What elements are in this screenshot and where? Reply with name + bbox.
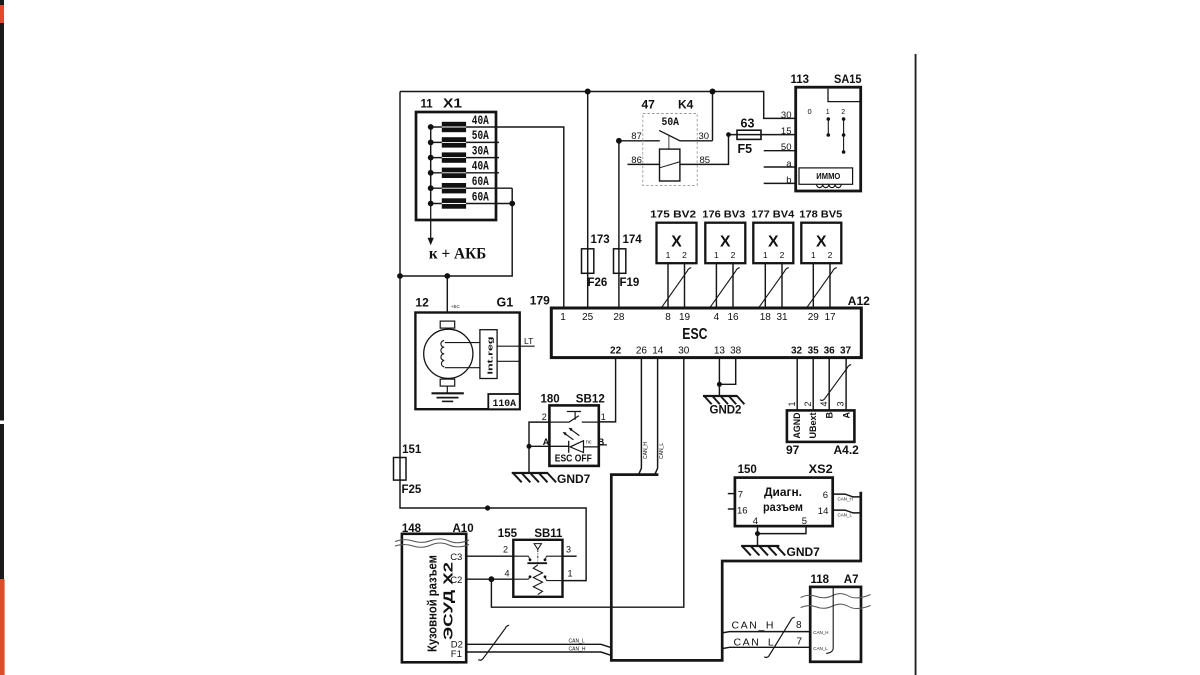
svg-text:14: 14 [652, 345, 664, 356]
svg-text:3: 3 [836, 401, 846, 406]
svg-text:CAN_L: CAN_L [659, 443, 665, 459]
svg-text:GND2: GND2 [710, 405, 742, 417]
wire: XS2 pin 7 stub [728, 493, 735, 495]
SB12 LED diode [570, 441, 583, 453]
G1 top terminal [440, 321, 455, 328]
node: F5 / relay 85 [726, 132, 731, 137]
node: ESC13/38 [717, 382, 722, 387]
wire: top supply bus from left frame to SA15 pin 30 [400, 92, 796, 119]
G1 bottom terminal [440, 379, 455, 386]
svg-text:176 BV3: 176 BV3 [702, 209, 745, 221]
arrow to battery [430, 204, 432, 239]
svg-text:4: 4 [505, 569, 510, 579]
svg-text:X: X [768, 233, 779, 250]
A7 break squiggle [801, 594, 871, 609]
wire: BV3 pin2 to ESC pin 16 [732, 263, 734, 308]
SB11 plunger [534, 544, 541, 550]
twisted pair mark BV2 [658, 268, 691, 308]
G1 regulator Int.reg [480, 330, 497, 379]
svg-text:16: 16 [727, 312, 739, 323]
svg-text:F19: F19 [620, 277, 640, 289]
G1 winding [441, 341, 444, 367]
svg-text:25: 25 [582, 312, 594, 323]
svg-text:50: 50 [781, 142, 792, 153]
wire: XS2 pin 16 stub [728, 508, 735, 510]
svg-text:2: 2 [731, 250, 736, 260]
svg-text:CAN_L: CAN_L [813, 646, 828, 651]
svg-text:Кузовной разъем: Кузовной разъем [426, 555, 440, 652]
svg-text:118: 118 [811, 574, 830, 586]
svg-text:110A: 110A [493, 398, 517, 410]
svg-text:37: 37 [840, 345, 852, 356]
svg-text:2: 2 [803, 401, 813, 406]
svg-text:G1: G1 [497, 296, 514, 310]
G1 internal ground [446, 386, 448, 393]
fuse 173 F26 [582, 249, 594, 273]
svg-text:XS2: XS2 [809, 464, 833, 476]
svg-text:ЭСУД X2: ЭСУД X2 [442, 562, 456, 640]
svg-text:+БС: +БС [451, 304, 461, 309]
twisted pair mark BV3 [706, 268, 740, 308]
svg-text:SB11: SB11 [534, 528, 563, 540]
svg-text:85: 85 [700, 155, 711, 166]
twisted pair mark BV5 [803, 268, 837, 308]
svg-text:F5: F5 [738, 142, 753, 156]
wire: ESC pin 13 to GND2 [718, 358, 720, 395]
G1 stator circle [424, 329, 473, 378]
svg-text:97: 97 [786, 443, 800, 457]
svg-text:6: 6 [823, 490, 828, 501]
svg-text:CAN_H: CAN_H [643, 442, 649, 459]
twisted pair mark A4.2 [820, 365, 851, 401]
svg-text:14: 14 [818, 506, 829, 517]
svg-text:40A: 40A [472, 160, 489, 174]
node: X1 row6 [509, 201, 515, 207]
svg-text:CAN_H: CAN_H [838, 497, 853, 502]
wire: X1 internal supply column [430, 127, 432, 204]
svg-text:A: A [543, 437, 550, 447]
wire: X1 fuse row3 30A stub [431, 157, 499, 159]
wire: X1 fuse row4 40A stub [431, 172, 499, 174]
wire: XS2 pin 6 to CAN bus [833, 494, 861, 497]
svg-text:LT: LT [524, 336, 533, 346]
wire: battery feed to G1 terminal [446, 276, 448, 313]
svg-text:36: 36 [824, 345, 836, 356]
svg-text:CAN_L: CAN_L [569, 638, 585, 644]
svg-text:8: 8 [796, 620, 802, 631]
ground GND2 [703, 396, 744, 404]
svg-text:40A: 40A [472, 114, 489, 128]
svg-text:178 BV5: 178 BV5 [799, 209, 842, 221]
svg-text:63: 63 [741, 116, 755, 130]
svg-text:разъем: разъем [763, 502, 803, 514]
fuse 151 F25 [394, 458, 407, 481]
fuse X1/6 60A [442, 198, 466, 208]
wire: ESC pin 26 CAN_H to CAN bus [639, 358, 642, 475]
svg-text:GND7: GND7 [787, 545, 821, 559]
svg-text:X: X [671, 233, 682, 250]
svg-text:b: b [786, 175, 791, 186]
wire: A10 pin C3 to SB11 pin 2 [466, 555, 513, 557]
svg-text:35: 35 [808, 345, 820, 356]
wire: A10 pin D2 CAN_L to CAN bus [466, 644, 611, 647]
svg-text:к + АКБ: к + АКБ [429, 246, 486, 263]
fuse X1/2 50A [442, 137, 466, 147]
svg-text:1: 1 [560, 312, 566, 323]
node: XS2 4/5 [755, 531, 760, 536]
fuse box X1 [416, 112, 496, 220]
wire: relay K4 pin 85 to fuse F5 to SA15 pin 15 [680, 135, 796, 165]
svg-text:1: 1 [714, 250, 719, 260]
wire: ESC pin 38 to GND2 junction [719, 358, 735, 385]
node: G1 feed [444, 273, 450, 279]
wire: X1 fuse row1 40A to ESC pin 1 [431, 127, 564, 308]
svg-text:173: 173 [591, 234, 610, 246]
svg-text:C2: C2 [450, 575, 462, 586]
wire: SA15 pin a stub [764, 166, 796, 168]
svg-text:CAN_L: CAN_L [734, 636, 776, 648]
wire: X1 fuse row2 50A stub [431, 141, 499, 143]
svg-text:SA15: SA15 [834, 74, 862, 86]
svg-text:B: B [824, 412, 834, 419]
svg-text:155: 155 [498, 528, 518, 540]
wire: X1 fuse row6 60A to generator feed and left frame [400, 188, 512, 276]
svg-text:1: 1 [811, 250, 816, 260]
svg-text:28: 28 [613, 312, 625, 323]
fuse X1/4 40A [442, 168, 466, 178]
svg-text:50A: 50A [472, 129, 489, 143]
wire: ESC pin 30 to A10 pin C2 [491, 358, 683, 608]
node: 87 line / F19 [616, 138, 622, 144]
junction dots [397, 89, 760, 583]
wire: CAN bus branch to A7 pin 7 CAN_L [722, 647, 810, 648]
svg-text:5: 5 [802, 516, 807, 527]
svg-text:7: 7 [797, 637, 803, 648]
wire: A10 pin C2 to SB11 pin 4 [466, 578, 513, 580]
svg-text:0: 0 [808, 107, 812, 116]
wire: SB12 LED pin A [529, 445, 569, 447]
svg-text:22: 22 [610, 345, 622, 356]
svg-text:GND7: GND7 [557, 472, 591, 486]
svg-text:2: 2 [780, 250, 785, 260]
svg-text:1: 1 [601, 412, 606, 422]
svg-text:SB12: SB12 [576, 393, 605, 405]
node: left frame / 60A feed [397, 273, 403, 279]
wire: ESC pin 36 to A4.2 pin 4 [828, 358, 830, 411]
svg-text:A: A [841, 412, 851, 419]
SB11 upper contacts [513, 555, 562, 557]
page divider line (right) [915, 54, 917, 675]
fuse 63 F5 [737, 130, 761, 139]
wire: ESC pin 14 CAN_L to CAN bus [655, 358, 658, 475]
svg-text:2: 2 [682, 250, 687, 260]
wire: BV4 pin1 to ESC pin 18 [764, 263, 766, 308]
svg-text:1: 1 [568, 569, 573, 579]
wire: A10 pin F1 CAN_H to CAN bus [466, 652, 611, 655]
svg-text:7: 7 [738, 489, 743, 500]
wire: SA15 pin b stub [764, 182, 796, 184]
svg-text:30: 30 [781, 110, 792, 121]
svg-text:nc: nc [586, 440, 592, 446]
svg-text:32: 32 [791, 345, 803, 356]
svg-text:CAN_H: CAN_H [569, 646, 586, 652]
svg-text:A7: A7 [844, 574, 859, 586]
svg-text:26: 26 [636, 345, 648, 356]
node: C2 / ESC30 [489, 576, 495, 582]
SB11 lower contacts [513, 579, 562, 580]
SB11 spring [533, 565, 542, 595]
svg-text:151: 151 [402, 444, 422, 456]
twisted pair mark A10 CAN [478, 625, 509, 660]
svg-text:60A: 60A [472, 190, 489, 204]
svg-text:B: B [598, 437, 605, 447]
svg-text:86: 86 [631, 155, 642, 166]
svg-text:179: 179 [530, 294, 550, 308]
wire: BV3 pin1 to ESC pin 4 [715, 263, 717, 308]
ground GND7 (SB12) [512, 473, 556, 482]
svg-text:87: 87 [631, 131, 642, 142]
wire: BV5 pin1 to ESC pin 29 [812, 263, 814, 308]
fuse 174 F19 [614, 249, 626, 273]
svg-text:4: 4 [714, 312, 720, 323]
svg-text:2: 2 [503, 545, 508, 555]
wire: ESC pin 37 to A4.2 pin 3 [845, 358, 847, 411]
svg-text:19: 19 [679, 312, 691, 323]
svg-text:31: 31 [776, 312, 788, 323]
svg-text:47: 47 [642, 98, 656, 112]
twisted pair mark BV4 [755, 268, 789, 308]
svg-text:F26: F26 [588, 277, 608, 289]
svg-text:K4: K4 [678, 98, 694, 112]
svg-text:174: 174 [623, 234, 643, 246]
A7 internal wire [826, 587, 833, 654]
svg-text:3: 3 [566, 545, 571, 555]
svg-text:4: 4 [819, 401, 829, 406]
node: top bus / F26 [585, 89, 591, 95]
svg-text:1: 1 [826, 109, 830, 116]
node: SB12 pin2 / GND7 [527, 444, 532, 449]
svg-text:ESC OFF: ESC OFF [555, 454, 592, 465]
wire: BV2 pin2 to ESC pin 19 [684, 263, 686, 308]
steering sensor A4.2 [787, 410, 855, 442]
svg-text:13: 13 [714, 345, 726, 356]
svg-text:30: 30 [678, 345, 690, 356]
svg-text:1: 1 [763, 250, 768, 260]
svg-text:60A: 60A [472, 175, 489, 189]
wire: SA15 pin 50 stub [764, 150, 796, 152]
wire: X1 fuse row5 60A [431, 187, 513, 189]
SA15 contact column 1 [827, 119, 829, 135]
svg-text:ESC: ESC [682, 326, 708, 343]
wire: CAN bus branch to A7 pin 8 CAN_H [722, 632, 810, 633]
svg-text:Int.reg: Int.reg [485, 336, 494, 375]
page edge bar (left) [0, 0, 4, 675]
svg-text:50A: 50A [662, 117, 680, 129]
svg-text:30A: 30A [472, 144, 489, 158]
svg-text:150: 150 [738, 464, 757, 476]
svg-text:8: 8 [665, 312, 671, 323]
svg-text:11: 11 [421, 99, 434, 111]
SA15 key notch [828, 89, 861, 102]
svg-text:X: X [720, 233, 731, 250]
svg-text:17: 17 [824, 312, 836, 323]
svg-text:UBext: UBext [808, 413, 818, 439]
SB12 button contact [567, 412, 581, 420]
svg-text:15: 15 [781, 126, 792, 137]
A10 break squiggle [395, 539, 469, 547]
immobilizer coil IMMO [799, 168, 853, 184]
wire: top bus down to relay K4 contact 30 [712, 92, 714, 141]
relay K4 contact blade [659, 130, 712, 140]
wire: SB11 pin 3 stub [563, 555, 577, 557]
svg-text:C3: C3 [450, 552, 462, 563]
svg-text:2: 2 [841, 109, 845, 116]
svg-text:A12: A12 [848, 294, 870, 308]
wire: left frame down through F25, right to SB11 pin 1 [400, 92, 586, 581]
wire: XS2 pin 14 to CAN bus [833, 510, 861, 513]
svg-text:X1: X1 [443, 97, 462, 111]
wire: relay K4 pin 87 to fuse F19 to ESC pin 28 [619, 141, 660, 308]
svg-text:X: X [816, 233, 827, 250]
svg-text:180: 180 [541, 393, 560, 405]
svg-text:18: 18 [760, 312, 772, 323]
wire: ESC pin 32 to A4.2 pin 1 [796, 358, 798, 411]
wire: BV4 pin2 to ESC pin 31 [781, 263, 783, 308]
svg-text:29: 29 [808, 312, 820, 323]
svg-text:113: 113 [791, 74, 810, 86]
relay K4 coil [660, 149, 680, 181]
svg-text:175 BV2: 175 BV2 [650, 209, 696, 221]
wire: BV5 pin2 to ESC pin 17 [829, 263, 831, 308]
svg-text:Диагн.: Диагн. [764, 487, 802, 499]
svg-text:16: 16 [737, 505, 748, 516]
wire: relay K4 pin 86 stub [628, 163, 660, 165]
svg-text:AGND: AGND [792, 412, 802, 438]
svg-text:F25: F25 [402, 484, 422, 496]
fuse X1/3 30A [442, 152, 466, 162]
svg-text:A4.2: A4.2 [834, 443, 860, 457]
svg-text:ИММО: ИММО [816, 172, 840, 181]
wire: SB12 pin 2 to GND7 [529, 422, 549, 473]
svg-text:CAN_H: CAN_H [813, 630, 828, 635]
node: top bus / relay 30 [710, 89, 716, 95]
svg-text:177 BV4: 177 BV4 [751, 209, 794, 221]
twisted pair mark A7 CAN [764, 617, 794, 657]
svg-text:12: 12 [415, 296, 429, 310]
SA15 contact column 2 [843, 119, 845, 152]
wire: BV2 pin1 to ESC pin 8 [667, 263, 669, 308]
svg-text:2: 2 [542, 412, 547, 422]
svg-text:1: 1 [787, 401, 797, 406]
junction dot on F25 line [485, 505, 490, 510]
SB12 LED arrows [565, 429, 580, 440]
CAN bus (thick wire) [611, 475, 861, 661]
wire: ESC pin 35 to A4.2 pin 2 [812, 358, 814, 411]
G1 rating 110A [488, 394, 519, 409]
fuse X1/5 60A [442, 183, 466, 193]
ground GND7 (XS2) [741, 546, 785, 555]
fuse X1/1 40A [442, 122, 466, 132]
svg-text:4: 4 [753, 516, 758, 527]
X1 supply column nodes [428, 124, 434, 130]
svg-text:F1: F1 [451, 649, 462, 660]
svg-text:1: 1 [666, 250, 671, 260]
wire: XS2 pins 4,5 to GND7 [758, 526, 807, 546]
wire: top bus to fuse F26 to ESC pin 25 [587, 92, 589, 309]
svg-text:38: 38 [730, 345, 742, 356]
svg-text:2: 2 [828, 250, 833, 260]
wire: ESC pin 22 to SB12 pin 1 [599, 358, 616, 422]
svg-text:CAN_H: CAN_H [732, 620, 776, 632]
svg-text:CAN_L: CAN_L [838, 513, 853, 518]
svg-text:a: a [786, 158, 792, 169]
